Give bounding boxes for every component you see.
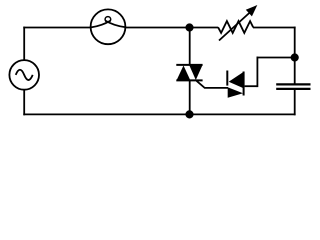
wire: triac branch upper xyxy=(189,28,191,65)
diac D1 lower triangle (apex right) xyxy=(228,87,243,98)
wire: triac branch lower xyxy=(189,80,191,114)
wire: top rail zigzag to right corner xyxy=(253,27,296,29)
variable resistor R1 arrow shaft xyxy=(219,11,252,41)
AC source V1 xyxy=(9,60,39,90)
wire: capacitor bottom lead xyxy=(294,90,296,116)
wire: top rail lamp to zigzag xyxy=(125,27,218,29)
wire: riser top horizontal to junction xyxy=(257,57,295,59)
node C: junction dot right xyxy=(292,54,298,60)
variable resistor R1 zigzag xyxy=(218,21,253,33)
wire: bottom rail xyxy=(23,113,295,115)
node A: junction dot top xyxy=(186,24,192,30)
triac Q1 right triangle (points down) xyxy=(189,66,202,81)
lamp L1 xyxy=(91,9,126,44)
wire: riser vertical xyxy=(256,57,258,88)
capacitor C1 top plate xyxy=(276,83,310,85)
diac D1 right bar xyxy=(243,72,245,96)
node B: junction dot bottom xyxy=(186,111,192,117)
triac Q1 left triangle (points up) xyxy=(177,66,191,81)
wire: left vertical top segment xyxy=(23,27,25,61)
wire: left vertical bottom segment xyxy=(23,90,25,116)
wire: top rail left of lamp xyxy=(23,27,91,29)
diac D1 left bar xyxy=(226,71,228,86)
triac Q1 top bar MT2 xyxy=(176,64,202,66)
diac D1 upper triangle (apex left) xyxy=(229,72,243,88)
wire: right vertical to capacitor xyxy=(294,27,296,84)
capacitor C1 bottom plate xyxy=(276,88,310,90)
wire: diac to riser xyxy=(245,85,258,87)
variable resistor R1 arrowhead xyxy=(246,5,257,16)
triac Q1 bottom bar MT1 xyxy=(176,79,202,81)
triac Q1 gate lead xyxy=(197,81,229,88)
